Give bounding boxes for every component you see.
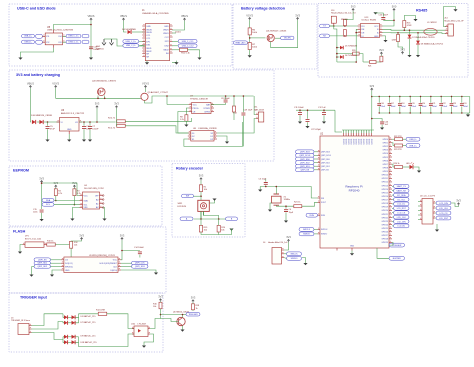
svg-text:DI(IO0): DI(IO0)	[110, 270, 117, 272]
wire	[96, 108, 98, 122]
svg-text:C12 1uF: C12 1uF	[318, 107, 326, 109]
hier label TRIGGER out	[186, 313, 200, 317]
svg-text:24LC64T-I/SN_C7452: 24LC64T-I/SN_C7452	[84, 188, 105, 190]
wire	[218, 219, 220, 225]
wire	[435, 202, 436, 204]
wire	[302, 202, 318, 206]
svg-text:SW: SW	[186, 196, 189, 198]
svg-text:GPIO6: GPIO6	[383, 160, 389, 162]
wire	[345, 11, 353, 19]
svg-text:Header-Male-2.54_1x1_Yel: Header-Male-2.54_1x1_Yel	[331, 12, 356, 14]
svg-text:GND: GND	[67, 129, 72, 131]
capacitor C24 100nF	[461, 97, 463, 103]
hier label SWDIO swd	[287, 257, 302, 261]
wire	[242, 96, 244, 112]
svg-text:FS8205A_C32939: FS8205A_C32939	[199, 127, 218, 130]
hier label ROT_B	[226, 217, 238, 221]
svg-text:QSPI_SD2: QSPI_SD2	[37, 266, 48, 268]
svg-text:J5 LCD_1.3_IPS: J5 LCD_1.3_IPS	[420, 196, 436, 198]
wire eeprom vcc	[42, 183, 80, 196]
svg-text:GPIO18: GPIO18	[382, 203, 389, 205]
wire chip vcc	[383, 20, 395, 26]
hier label QSPI_SD2	[296, 161, 315, 165]
hier label QSPI_SS	[34, 258, 51, 262]
wire	[132, 31, 145, 33]
ground	[258, 190, 262, 192]
hier label LCD_DC	[394, 202, 410, 206]
wire esd vbus pin	[54, 25, 92, 31]
svg-text:100nF: 100nF	[432, 106, 437, 108]
wire	[392, 190, 394, 192]
hier label QSPI_SD1	[34, 261, 51, 265]
svg-text:USB-C and ESD diode: USB-C and ESD diode	[17, 7, 56, 11]
wire tx	[330, 25, 358, 27]
wire	[219, 232, 232, 235]
svg-text:QSPI_SD1: QSPI_SD1	[321, 166, 330, 168]
wire	[172, 21, 184, 30]
svg-text:C26 100nF: C26 100nF	[379, 15, 389, 17]
ground	[18, 252, 22, 254]
diode D9 BAT54C	[64, 335, 68, 339]
svg-text:QSPI_SCLK: QSPI_SCLK	[321, 155, 332, 157]
wire flash right gnd	[121, 270, 156, 273]
decoupling rail bottom	[379, 112, 470, 114]
diode D19 BAT54C	[72, 340, 76, 344]
resistor R7 100k	[248, 43, 251, 50]
svg-text:USB_C_D+: USB_C_D+	[68, 36, 79, 38]
svg-text:VB_EN: VB_EN	[284, 38, 291, 40]
wire de re	[356, 29, 357, 62]
svg-text:GPIO29: GPIO29	[382, 242, 389, 244]
ground	[416, 55, 420, 57]
resistor R23 27R usb	[395, 144, 403, 147]
capacitor C15 100nF	[40, 210, 44, 212]
wire lcd bus	[418, 201, 420, 203]
wire flash vcc	[121, 251, 123, 258]
nc dots	[102, 195, 104, 197]
wire shield	[104, 38, 112, 40]
capacitor C13 100nF	[89, 47, 93, 49]
wire	[217, 119, 256, 134]
hier label USB_C_D- connector	[123, 44, 139, 48]
tvs diode D8	[416, 41, 420, 44]
svg-text:C17: C17	[391, 103, 394, 105]
svg-text:FLASH: FLASH	[13, 230, 26, 234]
svg-text:C20: C20	[422, 103, 425, 105]
wire collector	[161, 315, 183, 318]
wire	[32, 314, 64, 326]
resistor R18 pullup tx	[343, 19, 346, 26]
svg-text:C11 100nF: C11 100nF	[294, 107, 305, 109]
svg-text:100nF: 100nF	[391, 106, 396, 108]
wire r16 gnd loop	[404, 16, 415, 21]
ground	[298, 122, 302, 124]
diode D17 BAT54C	[72, 335, 76, 339]
svg-text:USB_C_D+: USB_C_D+	[126, 41, 137, 43]
resistor R14 100	[233, 106, 236, 112]
wire	[44, 121, 60, 123]
section box Rotary encoder	[172, 164, 245, 238]
svg-text:3V3: 3V3	[400, 47, 405, 51]
svg-text:C18: C18	[401, 103, 404, 105]
svg-text:C19: C19	[411, 103, 414, 105]
wire	[70, 248, 72, 257]
wire encoder B run	[204, 216, 219, 220]
svg-text:LCD_CLK: LCD_CLK	[439, 208, 449, 210]
svg-text:R23 27R: R23 27R	[394, 149, 402, 151]
hier label I2C_SDA	[394, 193, 410, 197]
capacitor C19 100nF	[409, 97, 411, 103]
svg-text:IOVDD: IOVDD	[371, 138, 373, 144]
wire mid	[62, 337, 64, 340]
wire	[41, 183, 43, 209]
wire	[225, 103, 227, 105]
ground	[18, 58, 22, 60]
wire	[225, 96, 227, 99]
svg-text:GPIO2: GPIO2	[383, 146, 389, 148]
wire	[29, 88, 32, 122]
ground	[268, 210, 272, 212]
resistor R14 470R	[98, 312, 107, 315]
ground	[350, 253, 354, 255]
svg-text:GPIO26: GPIO26	[382, 232, 389, 234]
svg-text:D5 TVS0603B: D5 TVS0603B	[345, 45, 358, 47]
svg-text:10k: 10k	[204, 230, 207, 232]
svg-text:D10 MBR120_C8598: D10 MBR120_C8598	[31, 115, 53, 117]
svg-text:3V3: 3V3	[191, 296, 196, 300]
svg-text:C23: C23	[453, 103, 456, 105]
wire	[192, 310, 194, 311]
capacitor C17 100nF	[389, 97, 391, 103]
wire divider	[249, 35, 251, 43]
capacitor C20 100nF	[420, 97, 422, 103]
svg-text:3V3: 3V3	[369, 84, 374, 88]
wire diode return	[79, 334, 135, 347]
wire	[47, 129, 49, 139]
svg-text:10k: 10k	[74, 245, 77, 247]
svg-text:USB_D-: USB_D-	[24, 42, 32, 44]
svg-text:GPIO9: GPIO9	[383, 171, 389, 173]
wire bottom rail	[194, 218, 226, 220]
wire	[97, 96, 99, 99]
svg-text:GPIO5: GPIO5	[383, 157, 389, 159]
wire	[76, 317, 79, 323]
wire	[398, 42, 403, 51]
wire	[284, 257, 287, 260]
svg-text:HOLD(IO3)/RESET: HOLD(IO3)/RESET	[100, 263, 118, 265]
svg-text:SBU1: SBU1	[146, 48, 152, 50]
svg-text:VBUS: VBUS	[163, 29, 169, 31]
hier label QSPI_SD2	[34, 265, 51, 269]
wire	[417, 33, 419, 41]
svg-text:12MHz: 12MHz	[284, 199, 290, 201]
wire r16 to line	[403, 28, 405, 31]
svg-text:USB_D-: USB_D-	[409, 139, 417, 141]
wire	[383, 36, 386, 40]
wire vsys rail	[56, 88, 142, 98]
wire	[323, 115, 325, 121]
svg-text:Q3 2N7002T_C8545: Q3 2N7002T_C8545	[266, 31, 287, 33]
svg-text:VBUS: VBUS	[87, 14, 94, 18]
wire	[392, 185, 394, 187]
svg-text:EEPROM: EEPROM	[13, 169, 29, 173]
svg-text:GPIO11: GPIO11	[382, 178, 388, 180]
svg-text:VBUS: VBUS	[27, 81, 34, 85]
ground	[89, 58, 93, 60]
svg-text:C29 10uF: C29 10uF	[244, 110, 254, 112]
wire gate	[250, 37, 266, 39]
svg-text:VBUS: VBUS	[163, 33, 169, 35]
svg-text:Battery voltage detection: Battery voltage detection	[241, 7, 286, 11]
svg-text:100nF: 100nF	[92, 129, 99, 131]
wire crystal case gnd	[270, 203, 272, 210]
wire	[284, 253, 287, 255]
svg-text:100nF: 100nF	[442, 106, 447, 108]
wire	[314, 162, 318, 164]
wire	[314, 169, 318, 171]
wire	[194, 195, 202, 197]
diode D5 protection	[340, 46, 343, 50]
svg-text:DO(IO1): DO(IO1)	[65, 263, 73, 265]
svg-text:Header-Meter-2.54_3P: Header-Meter-2.54_3P	[444, 19, 464, 22]
wire	[392, 203, 394, 205]
hier label SWCLK swd	[287, 252, 302, 256]
wire	[317, 214, 319, 216]
ground	[303, 263, 307, 265]
wire	[43, 35, 46, 37]
resistor R2 4.7k	[54, 189, 57, 196]
chassis ground 2	[110, 39, 114, 45]
wire	[55, 196, 57, 201]
svg-text:GPIO7: GPIO7	[383, 164, 389, 166]
section box USB-C and ESD diode	[9, 4, 232, 66]
wire collector label	[183, 314, 187, 316]
wire	[314, 165, 318, 167]
ground	[435, 230, 439, 232]
resistor R24 1k led	[395, 166, 403, 169]
ground chip	[383, 40, 387, 42]
wire	[172, 45, 178, 47]
wire	[392, 199, 394, 201]
wire	[139, 45, 146, 46]
wire encoder A	[200, 211, 202, 219]
wire	[68, 336, 72, 338]
svg-text:USB_C_CC2: USB_C_CC2	[182, 45, 195, 47]
wire left caps to chip	[335, 110, 342, 132]
svg-text:10k: 10k	[204, 189, 207, 191]
ground	[82, 140, 86, 142]
wire shield to connector	[112, 39, 146, 46]
svg-text:GND: GND	[350, 246, 355, 248]
wire	[377, 248, 389, 258]
diode D11	[39, 120, 43, 124]
wire	[63, 336, 64, 338]
wire opto gnd	[144, 334, 154, 346]
wire	[124, 21, 127, 32]
wire	[299, 115, 301, 121]
wire	[275, 37, 281, 39]
svg-text:5V0: 5V0	[392, 4, 397, 8]
wire VBUS vertical	[90, 21, 92, 58]
svg-text:GPIO27: GPIO27	[382, 235, 389, 237]
wire shield	[443, 7, 455, 27]
chassis ground 1	[102, 39, 106, 45]
hier label SWDIO	[299, 232, 314, 236]
resistor R19 10k	[199, 225, 202, 232]
wire	[107, 314, 134, 329]
svg-text:GND: GND	[164, 26, 169, 28]
svg-text:LCD_CS: LCD_CS	[440, 213, 449, 215]
svg-text:3V3: 3V3	[120, 233, 125, 237]
hier label VBAT_ADC	[234, 41, 248, 45]
hier label I2C_SCL	[394, 198, 410, 202]
ground	[417, 171, 421, 173]
svg-text:SWCLK: SWCLK	[303, 229, 311, 231]
svg-text:VBUS: VBUS	[146, 32, 152, 34]
wire	[356, 32, 357, 34]
wire	[145, 88, 147, 92]
svg-text:D18 BAT54C_215: D18 BAT54C_215	[81, 341, 98, 344]
hier label USB_C_D-	[66, 40, 81, 44]
svg-text:D5 BAT54C_215: D5 BAT54C_215	[81, 315, 97, 318]
svg-text:BOOT_2.54_1x02: BOOT_2.54_1x02	[25, 238, 42, 240]
svg-text:47uF: 47uF	[50, 129, 56, 131]
resistor R22 27R usb	[395, 138, 403, 141]
wire	[417, 45, 419, 55]
resistor R16 10k	[159, 302, 162, 309]
wire	[392, 164, 395, 167]
wire	[217, 136, 227, 142]
mcu right pins	[389, 138, 392, 140]
svg-text:GPIO8: GPIO8	[383, 167, 389, 169]
wire	[63, 322, 64, 323]
wire	[392, 216, 394, 218]
wire bottom run	[337, 61, 356, 63]
ground	[40, 219, 44, 221]
svg-text:USB_C_D-: USB_C_D-	[69, 42, 79, 44]
svg-text:CHRG: CHRG	[204, 111, 210, 113]
svg-text:GND: GND	[374, 36, 379, 38]
wire	[397, 33, 399, 35]
hier label LCD4	[436, 216, 451, 220]
wire	[160, 309, 162, 319]
wire	[376, 61, 381, 63]
svg-text:10uF: 10uF	[86, 129, 92, 131]
svg-text:SW1: SW1	[178, 203, 184, 205]
svg-text:GPIO4: GPIO4	[383, 153, 389, 155]
svg-text:D7 SMAJ6.0CA-2-TR-PLD: D7 SMAJ6.0CA-2-TR-PLD	[412, 36, 435, 39]
svg-text:C21: C21	[432, 103, 435, 105]
svg-text:VSYS: VSYS	[142, 81, 149, 85]
svg-text:GPIO12: GPIO12	[382, 182, 389, 184]
resistor R6 100k	[248, 28, 251, 35]
wire	[392, 143, 395, 146]
hier label QSPI_SCLK	[296, 154, 315, 158]
svg-text:3V3: 3V3	[158, 295, 163, 299]
ground rail	[466, 115, 470, 117]
diode D6 protection	[340, 55, 343, 59]
svg-text:1.2k: 1.2k	[180, 119, 184, 121]
svg-text:AMS1117-3.3_C347222: AMS1117-3.3_C347222	[61, 112, 85, 115]
svg-text:QSPI_SS: QSPI_SS	[38, 259, 47, 261]
wire	[166, 96, 168, 105]
wire	[20, 245, 23, 252]
wire	[172, 49, 179, 51]
wire boot jp	[32, 266, 35, 268]
svg-text:QSPI_SD0: QSPI_SD0	[321, 159, 330, 161]
ground shield	[453, 9, 457, 11]
svg-text:LCD_DC: LCD_DC	[397, 204, 406, 206]
wire	[376, 12, 384, 16]
svg-text:LCD_DIN: LCD_DIN	[439, 203, 448, 205]
wire	[47, 122, 49, 126]
capacitor C16 100nF	[378, 97, 380, 103]
net tie NT4	[82, 40, 89, 44]
svg-text:GPIO3: GPIO3	[383, 150, 389, 152]
hier label LCD_CS	[394, 211, 410, 215]
svg-text:1k: 1k	[196, 308, 198, 310]
wire	[188, 50, 200, 58]
ground	[174, 62, 178, 64]
wire	[31, 267, 33, 275]
svg-text:D9 BAT54C_215: D9 BAT54C_215	[81, 335, 97, 338]
svg-text:3V3: 3V3	[295, 13, 300, 17]
svg-text:SDA: SDA	[84, 199, 89, 202]
svg-text:VBAT_ADC: VBAT_ADC	[235, 41, 246, 44]
svg-text:GPIO15: GPIO15	[382, 192, 389, 194]
svg-text:3V3: 3V3	[39, 176, 44, 180]
svg-text:I2C_SDA: I2C_SDA	[397, 194, 406, 197]
resistor R21 4.7k	[370, 61, 377, 64]
wire bat conn	[254, 96, 256, 115]
wire	[314, 233, 318, 235]
wire	[403, 166, 410, 168]
wire bus bottom	[334, 26, 337, 62]
svg-text:R10 1k: R10 1k	[47, 241, 53, 243]
wire crystal bottom	[276, 205, 294, 206]
svg-text:C27 470pF: C27 470pF	[311, 129, 322, 131]
hier label QSPI_CLK	[132, 261, 149, 265]
svg-text:GPIO10: GPIO10	[382, 175, 389, 177]
svg-text:SDA: SDA	[46, 199, 51, 202]
wire	[89, 129, 91, 139]
wire chip top pin collect	[342, 129, 374, 131]
wire	[73, 196, 75, 205]
wire	[249, 50, 251, 56]
wire	[104, 96, 106, 99]
wire	[381, 125, 383, 128]
hier label LCD3	[436, 211, 451, 215]
wire	[435, 217, 436, 219]
wire scl	[54, 204, 80, 206]
resistor R16 470R	[403, 21, 406, 28]
hier label LCD_CLK	[394, 215, 410, 219]
ground	[184, 125, 188, 127]
hier label RUN	[306, 213, 318, 217]
diode D18 BAT54C	[64, 340, 68, 344]
svg-text:BAT_BOX: BAT_BOX	[254, 108, 264, 111]
wire	[122, 240, 140, 250]
svg-text:C16: C16	[380, 103, 383, 105]
ground	[407, 55, 411, 57]
wire loop bottom	[184, 122, 243, 146]
wire esd gnd	[21, 48, 54, 58]
svg-text:3V3: 3V3	[95, 102, 100, 106]
ground	[142, 346, 146, 348]
svg-text:R5 4.7k: R5 4.7k	[108, 128, 115, 130]
wire	[41, 213, 43, 219]
svg-text:SWDIO: SWDIO	[303, 234, 310, 236]
